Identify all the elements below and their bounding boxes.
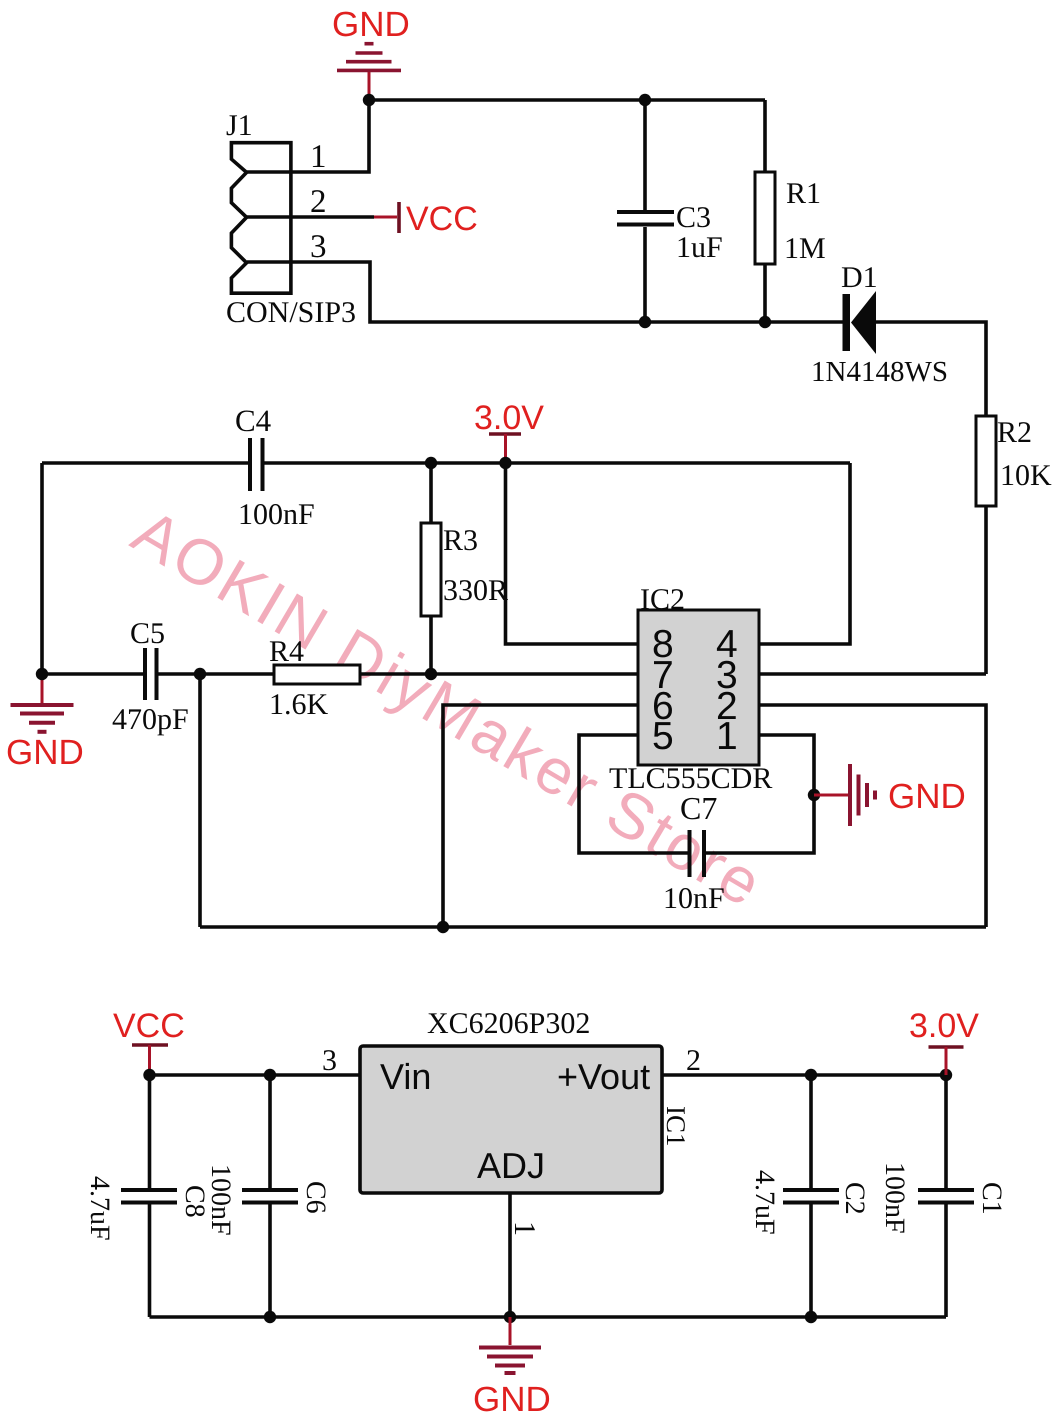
svg-text:IC1: IC1 xyxy=(661,1106,691,1147)
power symbol 3.0V (bottom) xyxy=(929,1047,964,1075)
svg-text:CON/SIP3: CON/SIP3 xyxy=(226,296,356,329)
svg-text:1M: 1M xyxy=(784,232,826,265)
ground symbol (left) xyxy=(11,676,74,732)
wire 3.0V rail xyxy=(42,461,250,465)
svg-text:R1: R1 xyxy=(786,177,821,210)
wire top rail xyxy=(369,98,765,102)
svg-text:5: 5 xyxy=(652,715,674,758)
svg-text:D1: D1 xyxy=(841,261,878,294)
junction (C5/R4 node) xyxy=(194,668,206,680)
svg-text:3: 3 xyxy=(322,1044,337,1077)
wire pin6 row xyxy=(443,705,638,927)
svg-text:1: 1 xyxy=(508,1221,541,1236)
wire J1 pin3 to diode row xyxy=(247,262,843,322)
svg-text:1.6K: 1.6K xyxy=(269,688,329,721)
svg-text:GND: GND xyxy=(6,733,84,772)
svg-text:1uF: 1uF xyxy=(676,231,723,264)
wire pin7 row xyxy=(42,672,145,676)
svg-text:ADJ: ADJ xyxy=(477,1145,545,1186)
resistor R1 xyxy=(763,100,767,172)
svg-text:C1: C1 xyxy=(976,1182,1007,1215)
junction (C3 bottom) xyxy=(639,316,651,328)
ground symbol (bottom) xyxy=(479,1317,541,1373)
svg-text:C4: C4 xyxy=(235,403,272,438)
resistor R2 xyxy=(976,416,996,506)
capacitor C5 xyxy=(143,648,147,700)
svg-text:XC6206P302: XC6206P302 xyxy=(427,1007,590,1040)
power symbol 3.0V (mid) xyxy=(489,434,521,463)
power symbol GND (top) xyxy=(337,44,401,100)
svg-text:2: 2 xyxy=(686,1044,701,1077)
regulator IC1 body xyxy=(360,1046,662,1193)
svg-text:100nF: 100nF xyxy=(879,1162,910,1234)
svg-text:R3: R3 xyxy=(443,524,478,557)
resistor R4 xyxy=(274,665,360,684)
wire diode to R2 xyxy=(876,322,986,416)
power symbol VCC (bottom) xyxy=(132,1045,168,1075)
svg-text:10K: 10K xyxy=(1000,459,1052,492)
svg-text:330R: 330R xyxy=(443,574,508,607)
capacitor C4 xyxy=(248,438,252,491)
wire feedback drop from C5 node xyxy=(198,674,202,927)
wire pin1 drop to C7 xyxy=(704,735,814,853)
wire VCC to Vin xyxy=(150,1073,361,1077)
capacitor C2 xyxy=(809,1075,813,1190)
svg-text:3: 3 xyxy=(310,229,327,265)
junction (R3 top) xyxy=(425,457,437,469)
svg-text:C3: C3 xyxy=(676,201,711,234)
wire left rail down xyxy=(40,463,44,674)
resistor R3 xyxy=(429,463,433,523)
junction (3.0V node bottom) xyxy=(940,1069,952,1081)
wire pin2 riser xyxy=(759,705,986,927)
junction (C2 top) xyxy=(805,1069,817,1081)
junction (top GND node) xyxy=(363,94,375,106)
diode D1 xyxy=(843,294,851,351)
junction (pin6 node) xyxy=(437,921,449,933)
junction (C2 bottom) xyxy=(805,1311,817,1323)
svg-text:J1: J1 xyxy=(226,109,253,142)
capacitor C8 xyxy=(148,1075,152,1190)
svg-text:1N4148WS: 1N4148WS xyxy=(811,356,948,388)
junction (pin1 GND node) xyxy=(808,789,820,801)
capacitor C1 xyxy=(944,1075,948,1190)
svg-text:Vin: Vin xyxy=(380,1056,431,1097)
junction (ADJ/GND node) xyxy=(504,1311,516,1323)
svg-text:4.7uF: 4.7uF xyxy=(749,1170,780,1235)
wire J1 pin2 to VCC xyxy=(247,215,374,219)
wire Vout to 3.0V xyxy=(662,1073,946,1077)
capacitor C3 xyxy=(643,100,647,210)
svg-text:VCC: VCC xyxy=(113,1007,185,1045)
svg-text:IC2: IC2 xyxy=(640,583,685,616)
svg-text:4.7uF: 4.7uF xyxy=(84,1176,115,1241)
junction (C6 bottom) xyxy=(264,1311,276,1323)
svg-text:GND: GND xyxy=(332,5,410,44)
wire pin4 feed xyxy=(759,463,850,644)
svg-text:470pF: 470pF xyxy=(112,703,189,736)
svg-text:GND: GND xyxy=(473,1380,551,1419)
svg-text:R2: R2 xyxy=(997,416,1032,449)
svg-text:2: 2 xyxy=(310,184,327,220)
connector J1 xyxy=(231,143,291,294)
svg-text:3.0V: 3.0V xyxy=(909,1007,979,1045)
wire pin1 drop xyxy=(247,100,369,172)
svg-text:C5: C5 xyxy=(130,617,165,650)
svg-text:1: 1 xyxy=(310,139,327,175)
ground symbol (555, rotated) xyxy=(814,764,875,826)
svg-text:3.0V: 3.0V xyxy=(474,399,544,437)
svg-text:R4: R4 xyxy=(269,635,304,668)
wire bottom feedback rail xyxy=(200,925,986,929)
wire pin8 feed xyxy=(506,463,639,644)
svg-text:100nF: 100nF xyxy=(205,1164,236,1236)
svg-text:C7: C7 xyxy=(680,790,717,826)
svg-text:10nF: 10nF xyxy=(663,882,725,915)
svg-text:+Vout: +Vout xyxy=(557,1056,650,1097)
svg-text:VCC: VCC xyxy=(406,200,478,238)
svg-text:1: 1 xyxy=(716,715,738,758)
power symbol VCC (mid) xyxy=(374,202,399,233)
junction (left GND node) xyxy=(36,668,48,680)
capacitor C7 xyxy=(688,830,692,877)
svg-text:C6: C6 xyxy=(300,1181,331,1214)
op-amp IC2 body xyxy=(638,610,759,765)
junction (3.0V node) xyxy=(499,457,511,469)
junction (C3 top) xyxy=(639,94,651,106)
svg-text:TLC555CDR: TLC555CDR xyxy=(609,762,772,795)
wire pin3 to R2 xyxy=(759,672,986,676)
junction (R4/R3 node) xyxy=(425,668,437,680)
svg-text:GND: GND xyxy=(888,777,966,816)
junction (C6 top) xyxy=(264,1069,276,1081)
svg-text:C2: C2 xyxy=(839,1182,870,1215)
wire ADJ to ground rail xyxy=(508,1193,512,1317)
wire pin5 loop xyxy=(579,735,689,853)
junction (VCC node) xyxy=(143,1069,155,1081)
capacitor C6 xyxy=(268,1075,272,1190)
svg-text:100nF: 100nF xyxy=(238,498,315,531)
junction (R1 bottom) xyxy=(759,316,771,328)
wire bottom rail xyxy=(150,1315,947,1319)
